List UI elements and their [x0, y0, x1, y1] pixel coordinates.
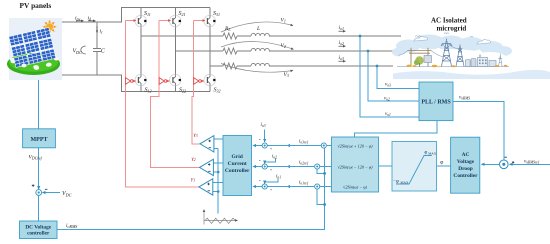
svg-text:vo2: vo2: [384, 97, 390, 102]
svg-text:V3: V3: [284, 72, 289, 78]
svg-text:vo1: vo1: [385, 112, 391, 117]
svg-text:MAX: MAX: [428, 151, 436, 155]
svg-text:γ3: γ3: [194, 132, 198, 138]
svg-text:-: -: [259, 159, 261, 165]
svg-text:io2: io2: [339, 40, 345, 46]
svg-text:V1: V1: [281, 18, 286, 24]
svg-text:io1ref: io1ref: [299, 181, 309, 186]
svg-text:Controller: Controller: [225, 168, 250, 174]
svg-text:Controller: Controller: [453, 173, 478, 179]
svg-text:−φ: −φ: [393, 180, 399, 185]
svg-text:C: C: [101, 49, 105, 55]
svg-text:S32: S32: [214, 88, 221, 94]
svg-text:+: +: [270, 187, 273, 192]
svg-text:γ1: γ1: [191, 177, 195, 183]
svg-text:S12: S12: [145, 88, 152, 94]
svg-text:RL: RL: [224, 26, 231, 32]
svg-text:voRMS: voRMS: [459, 96, 470, 101]
svg-text:MPPT: MPPT: [31, 137, 48, 143]
svg-text:io3: io3: [339, 55, 345, 61]
svg-text:Droop: Droop: [458, 166, 473, 172]
svg-text:S22: S22: [179, 88, 186, 94]
svg-text:AC Isolated: AC Isolated: [431, 17, 467, 25]
svg-text:-: -: [259, 138, 261, 144]
svg-text:Grid: Grid: [232, 154, 243, 160]
svg-text:S11: S11: [144, 11, 151, 17]
svg-text:AC: AC: [462, 152, 470, 158]
svg-text:S21: S21: [179, 11, 186, 17]
svg-text:io3: io3: [261, 123, 266, 128]
svg-text:VDCref: VDCref: [29, 155, 43, 161]
svg-text:ic: ic: [100, 29, 104, 35]
svg-text:io2: io2: [272, 155, 277, 160]
svg-text:voRMSref: voRMSref: [524, 160, 540, 165]
svg-text:V2: V2: [281, 43, 286, 49]
svg-text:io1: io1: [276, 175, 281, 180]
svg-text:VDC: VDC: [62, 191, 72, 197]
svg-text:microgrid: microgrid: [437, 25, 467, 33]
svg-text:+: +: [270, 146, 273, 151]
svg-text:controller: controller: [27, 231, 50, 237]
svg-text:vo3: vo3: [385, 83, 391, 88]
svg-text:S31: S31: [213, 11, 220, 17]
svg-text:PV panels: PV panels: [20, 1, 52, 10]
svg-text:io2ref: io2ref: [299, 161, 309, 166]
svg-text:√2Sin(ωt − φ): √2Sin(ωt − φ): [343, 184, 367, 189]
svg-text:io1: io1: [339, 25, 345, 31]
svg-text:Voltage: Voltage: [457, 159, 475, 165]
svg-text:MAX: MAX: [401, 180, 409, 184]
svg-text:PLL / RMS: PLL / RMS: [421, 100, 451, 106]
svg-text:io3ref: io3ref: [299, 140, 309, 145]
svg-text:ioRMS: ioRMS: [66, 223, 77, 229]
svg-text:Current: Current: [228, 161, 247, 167]
svg-text:φ: φ: [440, 160, 443, 166]
svg-text:+: +: [270, 167, 273, 172]
svg-text:L: L: [256, 26, 260, 32]
svg-text:γ2: γ2: [192, 156, 196, 162]
svg-text:-: -: [259, 179, 261, 185]
svg-text:√2Sin(ωt + 120 − φ): √2Sin(ωt + 120 − φ): [337, 143, 373, 148]
svg-text:φ: φ: [425, 151, 428, 156]
svg-text:√2Sin(ωt − 120 − φ): √2Sin(ωt − 120 − φ): [337, 164, 373, 169]
